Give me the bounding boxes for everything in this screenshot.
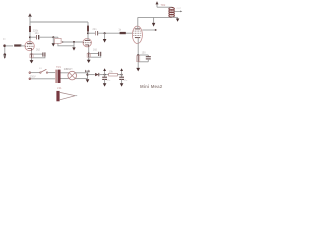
resistor R6 (V1 cathode) xyxy=(30,54,33,58)
ground (PSU bus) xyxy=(86,79,90,82)
wire plate V3 up xyxy=(137,17,139,29)
resistor R5 (V3 grid stopper) xyxy=(120,32,126,34)
ground (input) xyxy=(4,55,6,59)
resistor R1 (V1 plate) xyxy=(29,26,31,32)
wire grid V2 down xyxy=(73,42,75,48)
node filter B xyxy=(121,74,123,76)
wire rail to R4 xyxy=(87,22,89,26)
capacitor C3 (V1 cathode bypass) xyxy=(43,52,45,56)
net arrow heater A xyxy=(85,70,87,73)
wire cathode loop top V2 xyxy=(89,53,99,55)
net arrow heater B xyxy=(88,70,90,73)
wire plate rail right xyxy=(138,16,172,18)
wire jack to R2 xyxy=(5,45,13,47)
wire switch to TR1 xyxy=(48,72,55,74)
wire TR1 to lamp top xyxy=(61,72,69,74)
capacitor C6 (V2 cathode bypass) xyxy=(99,52,101,56)
capacitor C4 (filter) xyxy=(102,75,107,84)
ground (V2 grid) xyxy=(72,47,75,50)
node cathode V2 xyxy=(88,53,90,55)
wire R7 to node B xyxy=(117,74,121,76)
ground (C5) xyxy=(120,83,124,86)
svg-text:1k5: 1k5 xyxy=(93,48,98,51)
wire wiper to grid V2 xyxy=(63,41,83,43)
wire cathode loop bottom xyxy=(32,57,45,58)
wire cathode V3 xyxy=(137,38,139,69)
resistor R9 (V3 cathode) xyxy=(137,56,140,62)
wire V3 cathode loop bottom xyxy=(138,61,148,63)
svg-text:Mini Mea2: Mini Mea2 xyxy=(140,84,163,89)
svg-text:LS1: LS1 xyxy=(57,86,62,90)
net arrow screen g2 xyxy=(155,29,157,31)
wire L1 bottom right xyxy=(172,16,178,18)
wire secondary out xyxy=(174,11,182,13)
ground (V3 grid leak) xyxy=(103,39,107,43)
wire grid V3 down xyxy=(104,33,106,39)
svg-text:10n: 10n xyxy=(35,32,40,35)
wire R1 to plate node xyxy=(29,32,31,44)
wire mains L xyxy=(29,72,40,74)
wire plate V1 to C1 xyxy=(30,36,36,38)
wire cathode V1 xyxy=(31,51,33,61)
switch S1 xyxy=(40,69,48,73)
wire cathode loop bottom V2 xyxy=(89,56,101,57)
node PSU input xyxy=(86,74,88,76)
connector X1 input jack xyxy=(3,44,6,54)
node plate V2 xyxy=(87,32,89,34)
diode D1 xyxy=(95,73,99,76)
node filter A xyxy=(104,74,106,76)
capacitor C5 (filter) xyxy=(119,75,124,84)
resistor R4 (V2 plate) xyxy=(87,26,89,32)
screen grid net arrow xyxy=(152,17,155,26)
wire rail to R1 xyxy=(29,22,31,26)
speaker LS1 xyxy=(56,91,77,101)
wire lamp to bus top xyxy=(75,72,87,74)
resistor R2 (grid stopper) xyxy=(14,44,21,46)
potentiometer P1 xyxy=(55,38,74,46)
lamp LA1 xyxy=(68,71,77,80)
wire screen grid V3 xyxy=(142,29,155,31)
wire R2 to grid V1 xyxy=(21,45,26,47)
wire top rail xyxy=(30,21,88,23)
wire R4 to plate node xyxy=(87,32,89,41)
inductor L1 (output transformer primary) xyxy=(169,7,174,17)
svg-text:OUT: OUT xyxy=(177,8,182,10)
tube V3 (output pentode) xyxy=(132,26,142,43)
tube V2 xyxy=(83,38,91,46)
tube V1 xyxy=(25,41,34,50)
ground (V3 cathode) xyxy=(136,68,140,72)
ground arrow (L1 right) xyxy=(176,17,179,21)
ground (grid leak) xyxy=(52,43,55,46)
resistor R7 (filter) xyxy=(109,73,118,76)
ground (C4) xyxy=(103,83,107,86)
svg-text:LA1 12V: LA1 12V xyxy=(65,68,74,71)
node grid leak xyxy=(52,36,54,38)
supply arrow B+ (stage rail) xyxy=(28,13,32,22)
net arrow B+ tap A xyxy=(103,68,106,74)
capacitor C2 (coupling) xyxy=(96,31,98,35)
node grid V2 xyxy=(73,41,75,43)
resistor R8 (V2 cathode) xyxy=(87,53,90,57)
wire D1 to node xyxy=(99,74,109,76)
svg-text:IN: IN xyxy=(3,38,6,41)
node cathode V3 xyxy=(137,54,139,56)
ground (V2 cathode) xyxy=(87,57,91,63)
wire cathode V2 xyxy=(88,47,90,60)
wire lamp to bus bottom xyxy=(75,78,87,80)
transformer TR1 xyxy=(55,70,60,83)
node cathode V1 xyxy=(31,53,33,55)
net arrow B+ tap B xyxy=(120,68,123,74)
wire L1 top to B+ xyxy=(157,6,172,8)
wire V3 cathode loop top xyxy=(138,54,148,56)
node plate V1 xyxy=(29,36,31,38)
wire C1 to pot xyxy=(39,36,58,38)
capacitor C7 (V3 cathode bypass) xyxy=(146,55,151,62)
wire cathode loop top xyxy=(32,53,43,55)
svg-text:2k2: 2k2 xyxy=(36,49,41,52)
wire plate V2 to C2 xyxy=(88,32,95,34)
capacitor C1 (coupling) xyxy=(37,35,39,39)
svg-text:150: 150 xyxy=(142,52,147,55)
svg-text:22n: 22n xyxy=(93,28,98,31)
wire mains N xyxy=(29,78,55,80)
wire TR1 to lamp bottom xyxy=(61,78,69,80)
wire bus to D1 xyxy=(88,74,95,76)
svg-text:TR1: TR1 xyxy=(56,65,61,69)
node jack sleeve xyxy=(4,53,7,56)
wire pot top xyxy=(57,37,59,38)
supply arrow B+ (output) xyxy=(156,1,159,7)
wire heater bus xyxy=(87,71,89,79)
wire grid leak down xyxy=(52,37,54,43)
node grid V3 xyxy=(104,32,106,34)
ground (V1 cathode) xyxy=(30,58,34,64)
wire C2 to grid V3 xyxy=(98,32,133,34)
